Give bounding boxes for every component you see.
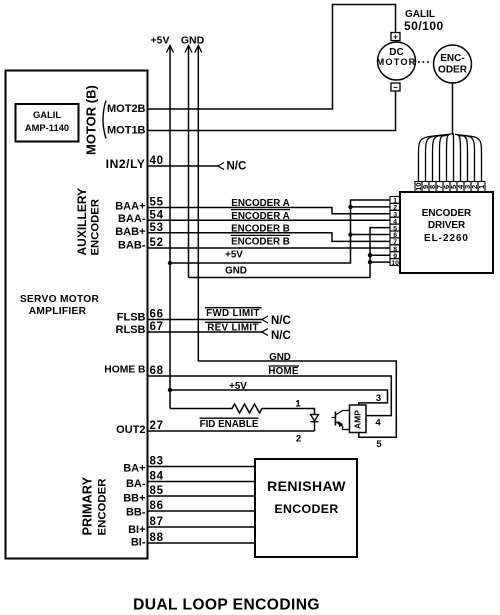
svg-text:BAB-: BAB- [118, 240, 146, 252]
svg-text:BI+: BI+ [128, 524, 145, 536]
svg-text:ENCODER: ENCODER [97, 479, 109, 536]
svg-text:+5V: +5V [229, 381, 247, 392]
svg-text:HOME B: HOME B [104, 365, 145, 376]
svg-text:ENCODER: ENCODER [422, 208, 471, 219]
svg-text:PRIMARY: PRIMARY [80, 476, 95, 535]
svg-text:GND: GND [225, 266, 247, 277]
svg-text:DUAL LOOP ENCODING: DUAL LOOP ENCODING [133, 597, 320, 614]
svg-text:+5V: +5V [225, 250, 243, 261]
svg-text:ENCODER A: ENCODER A [231, 211, 289, 222]
svg-text:27: 27 [150, 420, 164, 432]
svg-text:ENCODER B: ENCODER B [231, 237, 290, 248]
svg-text:+: + [393, 33, 398, 42]
svg-text:AMPLIFIER: AMPLIFIER [29, 306, 87, 317]
svg-text:FLSB: FLSB [117, 312, 146, 324]
svg-text:84: 84 [150, 471, 164, 483]
svg-text:DRIVER: DRIVER [428, 220, 465, 231]
svg-text:FWD LIMIT: FWD LIMIT [206, 308, 260, 319]
svg-text:ODER: ODER [438, 65, 468, 76]
svg-text:10: 10 [391, 260, 399, 267]
svg-text:4: 4 [375, 418, 381, 429]
svg-text:BB-: BB- [126, 507, 146, 519]
svg-text:EL-2260: EL-2260 [424, 233, 469, 244]
svg-text:83: 83 [150, 456, 164, 468]
svg-text:ENCODER: ENCODER [90, 199, 102, 256]
svg-text:BA-: BA- [126, 478, 146, 490]
svg-text:MOTOR: MOTOR [377, 57, 417, 67]
svg-text:67: 67 [150, 321, 164, 333]
svg-text:BAA+: BAA+ [115, 201, 145, 213]
svg-text:GND: GND [269, 352, 291, 363]
svg-text:N/C: N/C [227, 161, 247, 173]
svg-text:54: 54 [150, 210, 164, 222]
svg-text:52: 52 [150, 237, 164, 249]
svg-text:+5V: +5V [151, 35, 170, 47]
svg-text:MOT2B: MOT2B [107, 103, 146, 115]
svg-text:BI-: BI- [131, 537, 146, 549]
svg-text:ENCODER B: ENCODER B [231, 224, 290, 235]
svg-text:N/C: N/C [271, 330, 291, 342]
svg-text:AUXILLERY: AUXILLERY [75, 188, 89, 256]
svg-text:OUT2: OUT2 [116, 424, 145, 436]
svg-text:85: 85 [150, 485, 164, 497]
svg-text:IN2/LY: IN2/LY [106, 157, 146, 171]
svg-text:−: − [393, 83, 398, 92]
svg-text:1: 1 [477, 185, 486, 189]
svg-text:55: 55 [150, 197, 164, 209]
svg-text:SERVO MOTOR: SERVO MOTOR [20, 294, 100, 305]
svg-text:88: 88 [150, 532, 164, 544]
svg-text:GALIL: GALIL [33, 109, 61, 120]
svg-text:MOTOR (B): MOTOR (B) [84, 85, 99, 155]
svg-text:AMP: AMP [353, 410, 363, 429]
svg-text:ENC-: ENC- [440, 53, 464, 64]
svg-text:REV LIMIT: REV LIMIT [207, 323, 259, 334]
svg-text:68: 68 [150, 365, 164, 377]
svg-text:ENCODER: ENCODER [274, 502, 338, 516]
svg-text:BAA-: BAA- [118, 213, 146, 225]
svg-text:50/100: 50/100 [404, 19, 444, 33]
svg-text:RLSB: RLSB [116, 324, 146, 336]
svg-text:FID ENABLE: FID ENABLE [200, 419, 259, 430]
svg-text:53: 53 [150, 222, 164, 234]
svg-text:1: 1 [295, 399, 301, 410]
svg-text:3: 3 [376, 393, 381, 404]
svg-text:GND: GND [181, 35, 205, 47]
svg-text:2: 2 [296, 434, 301, 445]
svg-text:AMP-1140: AMP-1140 [25, 122, 69, 133]
svg-text:BAB+: BAB+ [115, 226, 145, 238]
svg-text:N/C: N/C [271, 315, 291, 327]
svg-text:MOT1B: MOT1B [107, 125, 146, 137]
svg-text:5: 5 [376, 439, 382, 450]
svg-text:66: 66 [150, 309, 164, 321]
svg-text:86: 86 [150, 500, 164, 512]
svg-text:BA+: BA+ [123, 463, 145, 475]
svg-text:87: 87 [150, 516, 164, 528]
svg-text:HOME: HOME [268, 366, 298, 377]
svg-text:BB+: BB+ [123, 493, 145, 505]
svg-text:ENCODER A: ENCODER A [231, 198, 289, 209]
svg-text:40: 40 [150, 155, 164, 167]
svg-text:RENISHAW: RENISHAW [267, 478, 346, 494]
